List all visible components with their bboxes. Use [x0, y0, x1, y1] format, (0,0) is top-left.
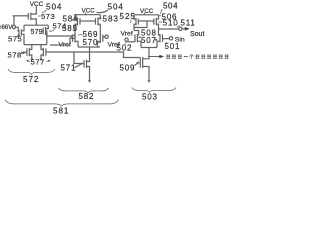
label 582 [79, 92, 95, 101]
label 584 [63, 15, 79, 24]
svg-text:503: 503 [142, 93, 158, 102]
wire to other amplifier with arrow [148, 55, 164, 58]
svg-text:507: 507 [141, 36, 157, 45]
VCC label stage3 [140, 8, 154, 15]
left PMOS stage3 [134, 15, 154, 31]
label 572 [23, 75, 39, 84]
svg-text:510: 510 [163, 19, 179, 28]
mirror tap stage3 [134, 21, 147, 28]
svg-text:Vref: Vref [121, 31, 133, 38]
svg-text:572: 572 [23, 75, 39, 84]
transistor 506 (right PMOS) [154, 15, 159, 29]
Vref terminal stage2 [105, 35, 120, 48]
label 571 [61, 63, 83, 73]
note: to another differential amplifier (Chinese) [166, 55, 229, 59]
svg-text:66V: 66V [2, 25, 13, 31]
svg-text:525: 525 [120, 12, 136, 21]
stage3 tail wire [148, 48, 150, 59]
drain tie bracket (577/578) [24, 44, 47, 46]
label 508 [138, 29, 156, 39]
label 506 [158, 12, 177, 21]
svg-text:511: 511 [181, 18, 196, 27]
svg-text:571: 571 [61, 64, 77, 73]
transistor 573 [13, 6, 37, 25]
stage3 source join [141, 47, 157, 49]
VCC3 rail [134, 14, 159, 16]
svg-text:581: 581 [53, 107, 69, 116]
svg-text:502: 502 [117, 44, 133, 53]
brace 503 [132, 88, 176, 93]
stage2 source join [78, 46, 100, 48]
label 569 [78, 30, 98, 39]
transistor 570 (right of pair) [98, 34, 105, 47]
wire terminal to 575 gate [16, 27, 19, 32]
Vref wire stage1 [46, 31, 48, 37]
wire VCC3 down [143, 13, 145, 15]
label 509 [120, 62, 140, 73]
svg-text:509: 509 [120, 64, 136, 73]
label 583 [99, 15, 119, 24]
transistor 584/585 (left PMOS) [75, 15, 96, 35]
net 504 label #2 [97, 3, 124, 13]
VCC label stage1 [30, 1, 44, 8]
net 504 label #1 [42, 3, 63, 13]
Sin terminal [169, 36, 185, 43]
label 577 [27, 58, 51, 67]
label 502 [117, 42, 133, 53]
wire 66V gate riser [13, 16, 15, 26]
label 501 [165, 42, 181, 51]
transistor 571 [74, 53, 91, 83]
svg-text:504: 504 [163, 1, 178, 10]
svg-text:584: 584 [63, 15, 79, 24]
bias wire (577 gate to 509 gate) [46, 52, 140, 58]
mirror transistor 577 [40, 45, 46, 61]
wire VCC2 down [85, 13, 87, 15]
VCC label stage2 [82, 7, 96, 14]
label 574 [49, 22, 67, 32]
stage2 tail wire [89, 47, 91, 59]
label 507 [141, 36, 157, 45]
output terminal [179, 27, 182, 30]
label 525 [120, 12, 136, 23]
label 579 [31, 29, 43, 36]
input terminal 166V [1, 25, 16, 31]
label 578 [8, 51, 26, 60]
Vref terminal stage1 [59, 35, 76, 48]
transistor 508 (left of pair) [127, 31, 141, 48]
label 581 [53, 107, 69, 116]
mirror transistor 578 [21, 45, 33, 61]
label 511 [177, 18, 196, 27]
svg-text:570: 570 [83, 38, 99, 47]
output arrow [182, 27, 190, 31]
Vref terminal stage3 [121, 31, 133, 42]
svg-text:578: 578 [8, 51, 22, 60]
label 510 [159, 19, 179, 28]
svg-text:Sout: Sout [190, 31, 204, 38]
VCC2 rail [74, 14, 101, 16]
svg-text:579: 579 [31, 29, 43, 36]
label Sout [190, 31, 204, 38]
label 573 [38, 12, 55, 21]
label 503 [142, 93, 158, 102]
svg-text:577: 577 [31, 58, 45, 67]
svg-text:VCC: VCC [140, 8, 154, 15]
svg-text:575: 575 [8, 35, 22, 44]
svg-text:573: 573 [41, 12, 55, 21]
svg-text:504: 504 [108, 3, 124, 12]
label 575 [8, 35, 22, 44]
label 585 [62, 24, 78, 33]
output wire [159, 28, 179, 30]
transistor 509 [140, 57, 150, 83]
transistor 507/501 (right of pair) [157, 29, 169, 48]
node wire (573 drain to pair sources) [24, 24, 48, 26]
transistor 579 [41, 25, 48, 44]
svg-text:583: 583 [103, 15, 119, 24]
brace 581 [5, 100, 119, 107]
transistor 583 (right PMOS) [96, 15, 101, 35]
svg-text:582: 582 [79, 92, 95, 101]
label 570 [83, 38, 102, 47]
net 504 label #3 [160, 1, 178, 14]
svg-text:VCC: VCC [82, 7, 96, 14]
brace 582 [59, 88, 109, 93]
svg-text:504: 504 [46, 3, 62, 12]
transistor 569 (left of pair) [50, 34, 78, 47]
brace 572 [8, 69, 55, 74]
transistor 575 [19, 25, 24, 44]
